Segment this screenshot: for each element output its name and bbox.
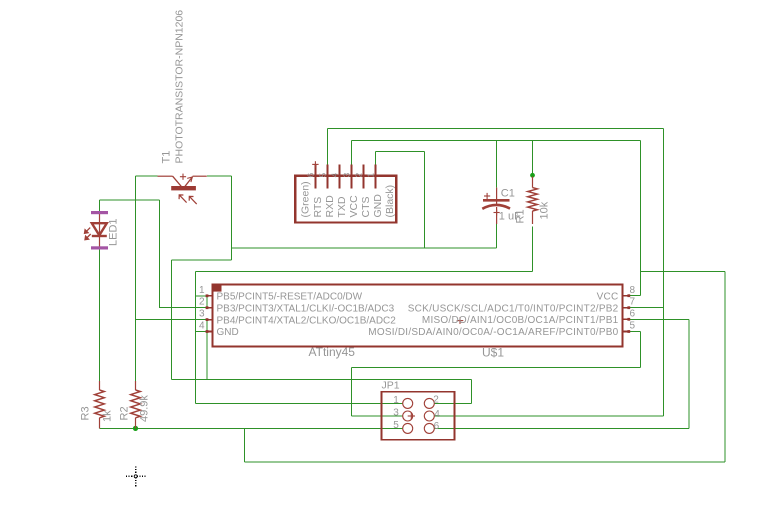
- svg-text:TXD: TXD: [336, 196, 348, 217]
- svg-text:5: 5: [393, 420, 399, 431]
- svg-text:GND: GND: [372, 194, 384, 218]
- svg-text:2: 2: [353, 173, 363, 178]
- pin tip dots left: [206, 294, 209, 297]
- svg-text:3: 3: [341, 173, 351, 178]
- svg-text:1: 1: [393, 395, 399, 406]
- svg-text:LED1: LED1: [108, 218, 120, 246]
- wire header VCC up: [350, 141, 352, 165]
- pin 5 stub: [623, 331, 628, 333]
- JP1 origin cross: [408, 415, 415, 417]
- pin 4 stub: [207, 331, 212, 333]
- resistor R2: [131, 381, 141, 428]
- pin 7 stub: [623, 307, 628, 309]
- svg-text:R3: R3: [80, 406, 92, 420]
- svg-text:(Green): (Green): [300, 181, 312, 217]
- JP1 pad circle 1: [403, 398, 413, 408]
- resistor R3: [95, 381, 105, 428]
- svg-text:PB3/PCINT3/XTAL1/CLKI/-OC1B/AD: PB3/PCINT3/XTAL1/CLKI/-OC1B/ADC3: [217, 303, 395, 314]
- wire pin3-pin4 down: [206, 320, 208, 380]
- wire emitter jog horizontal: [171, 259, 231, 261]
- JP1 pad circle 4: [424, 411, 434, 421]
- svg-text:GND: GND: [217, 327, 239, 338]
- wire T1 collector down to R2: [135, 176, 137, 381]
- wire bottom loop horizontal: [244, 461, 725, 463]
- svg-text:MISO/DO/AIN1/OC0B/OC1A/PCINT1/: MISO/DO/AIN1/OC0B/OC1A/PCINT1/PB1: [422, 315, 619, 326]
- wire C1 top feed: [496, 141, 498, 188]
- svg-text:2: 2: [433, 395, 439, 406]
- svg-text:6: 6: [305, 173, 315, 178]
- wire to JP1 pin3: [351, 415, 402, 417]
- wire LED1 anode stub: [99, 200, 101, 211]
- wire LED1 cathode to R3: [99, 249, 101, 381]
- header pin line 4: [339, 164, 341, 188]
- wire header GND up: [375, 152, 377, 165]
- svg-text:U$1: U$1: [482, 346, 504, 360]
- wire reset/gnd net vertical: [194, 272, 196, 404]
- svg-text:8: 8: [630, 285, 636, 296]
- wire pin6 down: [688, 319, 690, 428]
- svg-text:JP1: JP1: [382, 380, 400, 392]
- svg-text:10k: 10k: [539, 201, 551, 219]
- header pin line 3: [350, 164, 352, 188]
- wire T1 emitter vertical: [231, 176, 233, 260]
- capacitor C1 polarized: [482, 188, 510, 224]
- wire VCC right branch vertical: [724, 272, 726, 462]
- svg-text:4: 4: [434, 409, 440, 420]
- junction dot R2 bottom: [133, 426, 138, 431]
- svg-text:2: 2: [199, 297, 205, 308]
- wire pin7 horizontal: [629, 307, 664, 309]
- wire T1 emitter horizontal: [207, 175, 232, 177]
- wire emitter net vertical: [170, 260, 172, 380]
- JP1 pad circle 6: [424, 423, 434, 433]
- wire R1 top to VCC: [532, 141, 534, 175]
- wire T1 collector horizontal: [136, 175, 158, 177]
- pin 1 stub: [207, 295, 212, 297]
- wire VCC top horizontal: [351, 140, 640, 142]
- wire VCC branch horizontal: [641, 271, 726, 273]
- wire bottom loop left vertical: [243, 428, 245, 462]
- wire pin5 to JP1 pin3 horizontal: [351, 367, 640, 369]
- svg-text:PB4/PCINT4/XTAL2/CLKO/OC1B/ADC: PB4/PCINT4/XTAL2/CLKO/OC1B/ADC2: [217, 315, 397, 326]
- svg-text:(Black): (Black): [384, 185, 396, 218]
- svg-text:3: 3: [393, 407, 399, 418]
- wire JP1 pin2 feed vertical: [470, 380, 472, 404]
- svg-text:SCK/USCK/SCL/ADC1/T0/INT0/PCIN: SCK/USCK/SCL/ADC1/T0/INT0/PCINT2/PB2: [408, 303, 619, 314]
- header pin line 6: [314, 164, 316, 188]
- svg-text:1: 1: [366, 173, 376, 178]
- svg-text:C1: C1: [501, 188, 515, 200]
- pin 6 stub: [623, 318, 628, 320]
- IC center origin cross: [457, 317, 464, 324]
- wire bottom R3 R2 to JP1 pin5: [100, 427, 403, 429]
- wire LED anode horizontal: [100, 199, 160, 201]
- wire pin4 stub link: [195, 331, 206, 333]
- JP1 pad circle 2: [424, 398, 434, 408]
- cursor crosshair: [126, 466, 146, 486]
- header pin line 2: [362, 164, 364, 188]
- wire RXD top horizontal: [327, 127, 663, 129]
- svg-text:5: 5: [630, 321, 636, 332]
- header pin line 1: [375, 164, 377, 188]
- header origin cross: [312, 161, 318, 167]
- svg-text:1: 1: [199, 285, 205, 296]
- wire pin1-pin2 link: [206, 296, 208, 308]
- svg-text:PHOTOTRANSISTOR-NPN1206: PHOTOTRANSISTOR-NPN1206: [174, 10, 186, 164]
- wire pin3 horizontal: [136, 319, 207, 321]
- connector JP1 body: [382, 392, 455, 440]
- op-amp U1 ATtiny45 IC body: [213, 285, 623, 347]
- resistor R1: [528, 177, 538, 225]
- pad LED1 cathode: [91, 246, 108, 249]
- svg-text:VCC: VCC: [597, 291, 619, 302]
- wire RXD up: [326, 128, 328, 164]
- wire pin5 down: [640, 332, 642, 368]
- pad LED1 anode: [91, 211, 108, 214]
- wire JP1 pin4 right: [434, 415, 663, 417]
- wire pin2 horizontal: [159, 307, 206, 309]
- header pin line 5: [326, 164, 328, 188]
- svg-text:6: 6: [630, 309, 636, 320]
- svg-text:MOSI/DI/SDA/AIN0/OC0A/-OC1A/AR: MOSI/DI/SDA/AIN0/OC0A/-OC1A/AREF/PCINT0/…: [368, 327, 618, 338]
- wire JP1 pin3 feed vertical: [350, 368, 352, 417]
- wire to JP1 pin1: [195, 402, 402, 404]
- wire R1 bottom down: [532, 227, 534, 272]
- wire pin6 horizontal: [629, 318, 689, 320]
- transistor T1 phototransistor: [158, 174, 207, 205]
- svg-text:PB5/PCINT5/-RESET/ADC0/DW: PB5/PCINT5/-RESET/ADC0/DW: [217, 292, 363, 303]
- svg-text:5: 5: [317, 173, 327, 178]
- pin 3 stub: [207, 319, 212, 321]
- svg-text:4: 4: [199, 321, 205, 332]
- wire emitter to C1 horizontal: [232, 247, 497, 249]
- LED LED1: [84, 211, 107, 249]
- svg-text:RTS: RTS: [312, 197, 324, 218]
- wire long horizontal to JP1 pin2: [171, 379, 471, 381]
- svg-text:7: 7: [630, 297, 636, 308]
- svg-text:RXD: RXD: [324, 195, 336, 218]
- svg-text:ATtiny45: ATtiny45: [309, 345, 356, 359]
- wire VCC down to pin8: [640, 141, 642, 296]
- svg-text:CTS: CTS: [360, 197, 372, 218]
- wire C1 bottom: [496, 224, 498, 248]
- svg-text:6: 6: [434, 421, 440, 432]
- svg-text:R2: R2: [119, 406, 131, 420]
- wire LED anode net vertical: [158, 200, 160, 308]
- junction dot R1 top: [530, 173, 535, 178]
- JP1 pad circle 5: [403, 423, 413, 433]
- svg-text:1k: 1k: [102, 410, 114, 422]
- wire pin8 link: [629, 295, 641, 297]
- svg-text:3: 3: [199, 309, 205, 320]
- svg-text:1 uF: 1 uF: [499, 211, 521, 223]
- pin 2 stub: [207, 307, 212, 309]
- pin tip dots right: [627, 294, 630, 297]
- pin 8 stub: [623, 295, 628, 297]
- JP1 pad circle 3: [403, 411, 413, 421]
- wire pin1 stub link: [195, 295, 206, 297]
- wire header GND down: [424, 152, 426, 248]
- wire JP1 pin6 right: [434, 427, 689, 429]
- IC origin marker square: [213, 285, 222, 292]
- svg-text:VCC: VCC: [348, 195, 360, 218]
- svg-text:T1: T1: [161, 151, 173, 164]
- svg-text:4: 4: [330, 173, 340, 178]
- wire pin5 link: [629, 331, 641, 333]
- connector serial header body: [295, 176, 396, 223]
- wire RXD/SCK long vertical: [663, 128, 665, 416]
- wire R1 bottom horizontal: [195, 271, 532, 273]
- wire header GND horizontal: [376, 151, 425, 153]
- wire JP1 pin2 right: [434, 402, 471, 404]
- svg-text:49.9k: 49.9k: [139, 395, 151, 422]
